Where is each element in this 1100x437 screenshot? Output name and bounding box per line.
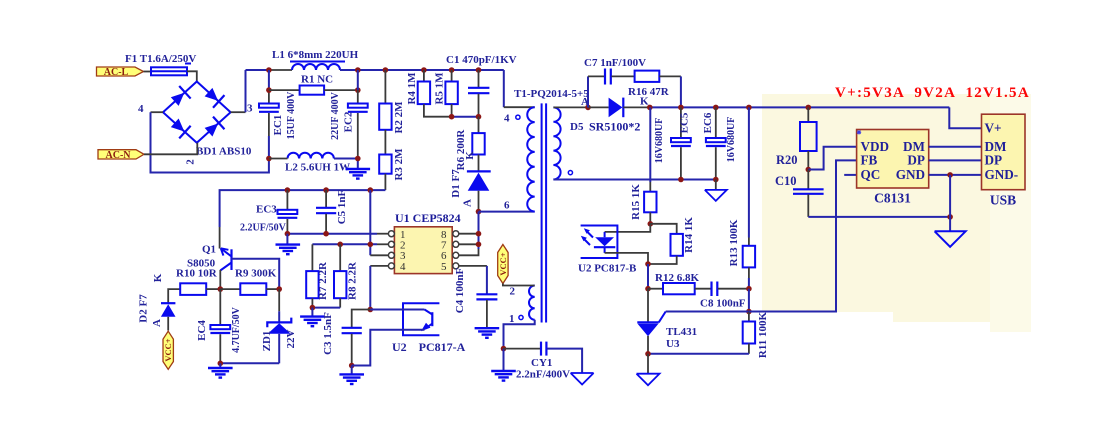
node bus-EC2	[355, 67, 361, 73]
svg-text:D1 F7: D1 F7	[450, 169, 462, 198]
node bus-EC1	[266, 67, 272, 73]
capacitor C10	[775, 170, 824, 217]
wire drain column	[478, 212, 480, 249]
node EC4 gnd	[218, 361, 224, 367]
svg-text:3: 3	[247, 103, 253, 115]
resistor R11	[648, 311, 769, 358]
wire drain to xfmr pin6	[479, 211, 535, 213]
wire secondary top	[553, 106, 588, 108]
wire top bus	[340, 69, 504, 71]
svg-text:GND: GND	[896, 167, 925, 182]
U1 pin6 lead	[459, 249, 479, 255]
svg-text:K: K	[464, 151, 476, 160]
svg-text:R4 1M: R4 1M	[406, 72, 418, 105]
node R9-ZD1	[276, 286, 282, 292]
ground secondary (TL431)	[637, 354, 660, 385]
svg-text:EC4: EC4	[196, 320, 208, 341]
ground primary (R7R8)	[311, 308, 313, 317]
capacitor EC2	[330, 70, 368, 159]
svg-text:V+:5V3A 9V2A 12V1.5A: V+:5V3A 9V2A 12V1.5A	[835, 85, 1030, 101]
svg-text:4: 4	[138, 103, 144, 115]
transformer core	[541, 103, 543, 322]
resistor R20	[776, 107, 817, 169]
resistor R7	[306, 244, 329, 307]
node C8-R13	[746, 286, 752, 292]
svg-text:R20: R20	[776, 153, 798, 167]
node pin7	[476, 242, 482, 248]
wire R13-R11	[748, 289, 750, 312]
wire GND rail (pin1)	[287, 233, 377, 235]
svg-text:U3: U3	[666, 338, 680, 350]
svg-text:CY1: CY1	[531, 357, 552, 369]
svg-text:4: 4	[504, 113, 510, 125]
node vdd-pin2	[368, 242, 374, 248]
resistor R4	[406, 70, 452, 117]
svg-text:L1 6*8mm 220UH: L1 6*8mm 220UH	[272, 49, 359, 61]
node R11 top FB	[746, 309, 752, 315]
wire aux pin2	[503, 284, 535, 286]
fuse F1	[151, 64, 191, 76]
node FB-C3-opto	[368, 307, 374, 313]
svg-text:U2 PC817-A: U2 PC817-A	[392, 340, 466, 354]
svg-text:4: 4	[400, 261, 406, 273]
wire FB net	[749, 160, 857, 311]
node rail-EC6	[713, 105, 719, 111]
svg-text:EC6: EC6	[702, 112, 714, 133]
svg-text:C3 1.5nF: C3 1.5nF	[322, 312, 334, 355]
svg-text:C8 100nF: C8 100nF	[700, 298, 746, 310]
svg-text:R9 300K: R9 300K	[235, 268, 277, 280]
resistor R5	[434, 70, 458, 117]
wire bridge+	[231, 111, 246, 113]
ground primary (C4)	[475, 328, 500, 338]
svg-text:D5: D5	[570, 121, 584, 133]
U1 pin8 lead	[459, 233, 479, 235]
node R5 rail	[449, 114, 455, 120]
svg-text:R14 1K: R14 1K	[683, 217, 695, 253]
svg-text:R10 10R: R10 10R	[176, 268, 218, 280]
svg-text:2: 2	[185, 159, 197, 165]
resistor R2	[379, 70, 405, 134]
diode D5 SR5100*2	[570, 98, 650, 134]
capacitor C3	[322, 312, 362, 366]
wire clamp rail	[452, 116, 479, 118]
wire VDD rail	[220, 190, 386, 227]
node R7 gnd	[310, 305, 316, 311]
node optoB-R14	[645, 261, 651, 267]
node rail-U1vdd	[368, 187, 374, 193]
svg-text:A: A	[151, 319, 163, 327]
node EC3 gnd	[285, 231, 291, 237]
svg-text:2.2UF/50V: 2.2UF/50V	[240, 223, 287, 234]
node gnd rail	[947, 214, 953, 220]
capacitor CY1	[504, 342, 583, 381]
wire	[144, 71, 152, 73]
wire gnd drop	[949, 175, 951, 231]
capacitor EC5	[654, 107, 691, 179]
diode bottom-right	[203, 117, 225, 139]
svg-text:5: 5	[441, 261, 447, 273]
svg-text:EC3: EC3	[256, 204, 277, 216]
svg-text:C5 1nF: C5 1nF	[336, 189, 348, 224]
node rail-R20	[806, 105, 812, 111]
capacitor C5	[316, 189, 348, 233]
svg-text:R2 2M: R2 2M	[393, 101, 405, 134]
inductor L1	[292, 64, 340, 70]
capacitor EC1	[259, 70, 297, 159]
node EC1-L2	[266, 156, 272, 162]
bridge rectifier BD1 ABS10	[163, 82, 231, 143]
node D5 anode	[585, 105, 591, 111]
wire FB to C3	[352, 310, 371, 328]
resistor R6	[455, 117, 485, 171]
svg-text:22UF 400V: 22UF 400V	[330, 91, 341, 139]
diode D1 F7	[450, 155, 491, 212]
svg-text:K: K	[152, 273, 164, 282]
svg-text:L2 5.6UH 1W: L2 5.6UH 1W	[285, 162, 350, 174]
wire U1 vdd drop	[369, 190, 371, 255]
node EC5 gnd rail	[678, 177, 684, 183]
resistor R8	[334, 244, 359, 307]
IC C8131	[857, 130, 929, 206]
capacitor EC3	[240, 190, 297, 234]
U1 pin3 lead	[370, 254, 388, 256]
capacitor C4	[454, 266, 497, 328]
node rail-EC3	[285, 187, 291, 193]
optocoupler U2 PC817-B	[578, 226, 637, 275]
ground primary (EC2/L2)	[346, 169, 371, 179]
zener ZD1 22V	[261, 289, 297, 363]
wire DM	[929, 146, 982, 148]
svg-text:C4 100nF: C4 100nF	[454, 267, 466, 313]
wire Q1 collector	[219, 270, 221, 289]
flag AC-N	[98, 150, 144, 161]
wire secondary bottom rail	[553, 179, 715, 181]
capacitor EC6	[702, 107, 737, 179]
capacitor EC4	[196, 289, 242, 363]
node R1-EC2	[355, 87, 361, 93]
svg-text:DP: DP	[985, 153, 1003, 168]
svg-text:A: A	[462, 199, 474, 207]
wire bridge-	[151, 111, 164, 113]
wire L2 right to EC2	[334, 159, 358, 170]
node snubber-EC5	[678, 105, 684, 111]
flag VCC+ (D2)	[163, 331, 173, 369]
svg-text:EC5: EC5	[679, 112, 691, 133]
resistor R15	[630, 107, 657, 223]
node EC1-R1	[266, 87, 272, 93]
node R8-pin2	[337, 242, 343, 248]
node GND-usb	[947, 172, 953, 178]
svg-text:AC-L: AC-L	[104, 67, 129, 78]
IC U1 CEP5824	[394, 211, 460, 274]
svg-text:C8131: C8131	[874, 191, 911, 206]
diode bottom-left	[169, 117, 191, 139]
svg-text:EC2: EC2	[343, 111, 355, 132]
resistor R3	[379, 130, 405, 190]
node bus-C1	[476, 67, 482, 73]
resistor R13	[728, 107, 755, 288]
svg-text:GND-: GND-	[985, 167, 1019, 182]
svg-text:R6 200R: R6 200R	[455, 129, 467, 171]
wire TL431 ref to R11	[666, 311, 749, 313]
svg-text:R11 100K: R11 100K	[757, 311, 769, 358]
diode top-right	[203, 86, 225, 108]
ground primary (C3)	[351, 366, 353, 375]
svg-text:R5 1M: R5 1M	[434, 72, 446, 105]
connector USB	[982, 114, 1026, 207]
wire QC stub	[844, 174, 856, 176]
svg-text:U1 CEP5824: U1 CEP5824	[395, 211, 461, 225]
node R15-optoB	[648, 221, 654, 227]
svg-text:15UF 400V: 15UF 400V	[286, 91, 297, 139]
svg-text:C10: C10	[775, 174, 797, 188]
capacitor C1	[468, 70, 489, 117]
wire optoB anode	[605, 224, 651, 232]
ground secondary (CY1)	[571, 373, 594, 385]
wire R14 top	[650, 224, 676, 234]
svg-text:EC1: EC1	[272, 115, 284, 136]
svg-text:2: 2	[510, 286, 516, 298]
U1 pin7 lead	[459, 243, 479, 245]
diode top-left	[169, 86, 191, 108]
phase dot aux	[519, 315, 523, 319]
resistor R9	[220, 268, 279, 295]
ground primary (EC3)	[286, 234, 288, 245]
flag AC-L	[97, 67, 144, 78]
svg-text:R15 1K: R15 1K	[630, 184, 642, 220]
wire EC4-ZD1 gnd rail	[220, 362, 279, 364]
resistor R14	[648, 217, 695, 264]
U1 pin5 lead	[459, 265, 487, 267]
svg-text:2.2nF/400V: 2.2nF/400V	[516, 369, 570, 381]
svg-text:V+: V+	[985, 121, 1002, 136]
resistor R16	[628, 71, 681, 108]
U1 pin2 lead	[377, 243, 388, 245]
resistor R12	[648, 272, 711, 294]
U1 pin4 lead	[370, 265, 388, 267]
svg-text:T1-PQ2014-5+5: T1-PQ2014-5+5	[514, 88, 589, 100]
capacitor C7 (snubber)	[584, 57, 646, 107]
svg-text:R1 NC: R1 NC	[301, 74, 333, 86]
wire pin2 row	[312, 243, 377, 245]
svg-text:16V680UF: 16V680UF	[654, 118, 665, 164]
wire C10 gnd rail	[808, 216, 950, 218]
svg-text:U2 PC817-B: U2 PC817-B	[578, 263, 637, 275]
wire aux pin1	[504, 320, 535, 349]
node aux gnd CY1	[501, 346, 507, 352]
node EC2-L2 gnd	[355, 156, 361, 162]
resistor R10	[168, 268, 220, 304]
optocoupler U2 PC817-A	[352, 303, 466, 365]
output section highlight area	[762, 94, 1031, 312]
inductor L2	[288, 153, 334, 159]
node pin8	[476, 231, 482, 237]
svg-text:R3 2M: R3 2M	[393, 148, 405, 181]
U1 pin1 lead	[377, 233, 388, 235]
node C3 gnd	[349, 363, 355, 369]
wire pin4 FB drop	[369, 266, 371, 310]
wire output rail	[650, 106, 950, 108]
svg-text:R8 2.2R: R8 2.2R	[347, 261, 359, 300]
svg-text:VCC+: VCC+	[498, 252, 508, 275]
node bus-R5	[449, 67, 455, 73]
node R20-C10-VDD	[806, 167, 812, 173]
svg-text:TL431: TL431	[666, 326, 697, 338]
ground primary (EC4)	[219, 363, 221, 368]
svg-text:D2 F7: D2 F7	[138, 294, 150, 323]
transformer T1 primary winding	[527, 107, 534, 211]
svg-text:BD1 ABS10: BD1 ABS10	[196, 146, 252, 158]
wire	[144, 143, 197, 155]
svg-text:6: 6	[504, 200, 510, 212]
wire GND	[929, 174, 982, 176]
svg-text:R13 100K: R13 100K	[728, 219, 740, 266]
svg-text:AC-N: AC-N	[106, 150, 132, 161]
node TL431 anode	[645, 351, 651, 357]
ground primary (aux)	[503, 349, 505, 371]
svg-text:FB: FB	[861, 153, 878, 168]
wire DP	[929, 159, 982, 161]
phase dot primary	[516, 115, 520, 119]
svg-text:22V: 22V	[285, 329, 297, 348]
flag VCC+ (aux)	[498, 245, 508, 284]
diode D2 F7	[138, 294, 176, 331]
ground secondary (EC6)	[705, 180, 727, 201]
wire	[187, 71, 197, 81]
svg-text:R7 2.2R: R7 2.2R	[317, 261, 329, 300]
transformer T1 secondary winding	[553, 107, 560, 179]
node C5 gnd	[323, 231, 329, 237]
ground secondary (USB)	[935, 231, 966, 247]
capacitor C8	[700, 282, 749, 310]
wire down to R12 node	[647, 264, 649, 289]
node bus-R2	[383, 67, 389, 73]
transformer T1 aux winding	[529, 286, 535, 320]
wire L2 left	[269, 158, 288, 160]
svg-text:C1 470pF/1KV: C1 470pF/1KV	[446, 54, 517, 66]
node R10-R9-EC4	[218, 286, 224, 292]
wire top bus	[246, 69, 269, 71]
svg-text:DP: DP	[907, 153, 925, 168]
svg-text:R12 6.8K: R12 6.8K	[655, 272, 699, 284]
wire Q1 base	[232, 259, 280, 289]
svg-text:ZD1: ZD1	[261, 331, 273, 352]
node R12-TL431	[645, 286, 651, 292]
svg-text:SR5100*2: SR5100*2	[589, 120, 640, 134]
svg-text:16V680UF: 16V680UF	[726, 117, 737, 163]
transistor Q1 S8050	[187, 244, 232, 271]
svg-text:R16 47R: R16 47R	[628, 86, 670, 98]
svg-text:4.7UF/50V: 4.7UF/50V	[231, 306, 242, 353]
phase dot secondary	[568, 171, 572, 175]
svg-text:Q1: Q1	[202, 244, 216, 256]
node EC6 gnd rail	[713, 177, 719, 183]
wire V+	[949, 107, 981, 128]
node bus-R4	[421, 67, 427, 73]
wire optoB cathode	[605, 253, 648, 264]
node drain	[476, 209, 482, 215]
svg-text:USB: USB	[990, 193, 1016, 208]
TL431 U3	[637, 289, 697, 354]
node rail-R13	[746, 105, 752, 111]
resistor R1	[269, 74, 358, 95]
node rail-C5	[323, 187, 329, 193]
svg-text:VCC+: VCC+	[163, 338, 173, 361]
wire bus to xfmr pin4	[503, 70, 505, 107]
wire R7R8 gnd rail	[312, 307, 340, 309]
svg-text:QC: QC	[861, 167, 881, 182]
wire VDD feed	[808, 147, 856, 170]
node C1 rail	[476, 114, 482, 120]
node K	[647, 105, 653, 111]
svg-text:C7 1nF/100V: C7 1nF/100V	[584, 57, 646, 69]
